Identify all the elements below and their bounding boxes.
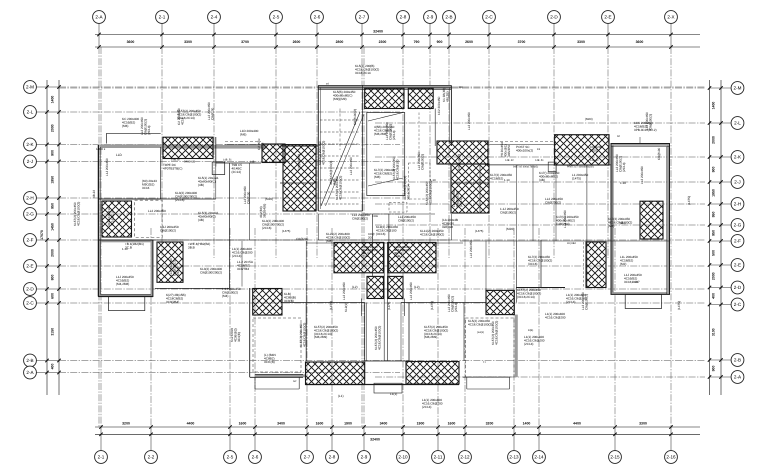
grid bubble right 2-J (731, 176, 744, 189)
wall room right edge (463, 303, 465, 362)
svg-text:3700: 3700 (518, 40, 526, 44)
svg-text:C8@100(2): C8@100(2) (457, 154, 461, 170)
svg-text:(M6): (M6) (240, 132, 246, 136)
label room C upper (645, 112, 652, 130)
svg-text:4C18(B2): 4C18(B2) (490, 176, 503, 180)
svg-text:(M9): (M9) (458, 86, 463, 89)
grid bubble left 2-C (24, 297, 37, 310)
grid bubble left 2-L (24, 106, 37, 119)
grid bubble top 2-A (93, 11, 106, 24)
wall left of H10 (586, 241, 588, 288)
svg-text:3x8(3x8: 3x8(3x8 (442, 225, 453, 229)
svg-text:(C4B: (C4B (394, 254, 401, 258)
grid bubble top 2-8 (397, 11, 410, 24)
grid bubble top 2-6 (311, 11, 324, 24)
wall core top edge (318, 84, 451, 86)
wall tab below H1 (212, 162, 225, 175)
wall below H14a (361, 299, 363, 317)
wall core left (317, 86, 319, 212)
svg-text:3400: 3400 (277, 421, 285, 425)
grid line 438 vertical (bottom) (437, 228, 439, 427)
label rotated room C2 (640, 166, 644, 184)
label KL left (175, 191, 197, 202)
svg-text:2600: 2600 (293, 40, 301, 44)
label bottom left room (264, 353, 276, 364)
svg-text:LL2 200x450: LL2 200x450 (409, 282, 413, 300)
label left edge small (96, 147, 106, 151)
grid bubble left 2-B (24, 354, 37, 367)
svg-text:LLD: LLD (116, 153, 123, 157)
grid line 88 horizontal (right) (59, 87, 705, 89)
svg-text:2000: 2000 (51, 249, 55, 257)
grid bubble top 2-5 (270, 11, 283, 24)
wall step R (466, 377, 468, 389)
dashed room outline bottom right (466, 318, 515, 377)
grid bubble right 2-F (731, 235, 744, 248)
wall vertical (408, 303, 410, 362)
wall corridor bottom left (183, 239, 306, 241)
grid bubble top 2-D (548, 11, 561, 24)
label right of H11L (284, 292, 296, 303)
svg-text:(M4,2M8): (M4,2M8) (116, 282, 129, 286)
grid line 214 vertical (top) (213, 47, 215, 258)
svg-text:2-J: 2-J (27, 159, 33, 164)
label rotated room C (615, 154, 626, 172)
svg-text:2-F: 2-F (734, 239, 741, 244)
svg-text:14B .51: 14B .51 (535, 159, 544, 162)
svg-text:790: 790 (414, 40, 420, 44)
label rotated center (374, 326, 381, 350)
label left mid 3 (148, 209, 166, 213)
grid bubble top 2-7 (356, 11, 369, 24)
grid bubble right 2-A (731, 371, 744, 384)
svg-text:C8@100(2): C8@100(2) (352, 216, 368, 220)
svg-text:(1475): (1475) (572, 176, 581, 180)
wall outline right (485, 144, 556, 146)
label core col 5 (425, 181, 432, 205)
svg-text:4C18: 4C18 (260, 142, 264, 150)
label core inner 3 (392, 156, 399, 180)
wall notch below H8 (548, 162, 556, 172)
svg-text:3C8(2B4): 3C8(2B4) (166, 300, 179, 304)
label core inner 4 (417, 152, 424, 170)
wall vertical 541 (540, 240, 542, 288)
label center left small (329, 301, 333, 310)
grid bubble left 2-E (24, 260, 37, 273)
wall room B bottom inner (101, 294, 151, 296)
svg-text:2-1: 2-1 (159, 15, 166, 20)
wall core bottom (363, 213, 435, 215)
svg-text:2-C: 2-C (734, 302, 742, 307)
wall core inner vertical (362, 86, 364, 212)
duct shaft tall rect (367, 113, 405, 196)
wall interior (532, 165, 534, 241)
grid line 230 vertical (bottom) (229, 228, 231, 427)
svg-text:(M8): (M8) (374, 175, 380, 179)
label near H8 (590, 145, 603, 152)
wall thin above hatches (306, 242, 463, 244)
svg-text:2-K: 2-K (734, 155, 742, 160)
svg-text:3400 1C: 3400 1C (184, 160, 195, 164)
svg-text:3300: 3300 (639, 421, 647, 425)
grid bubble bottom 2-12 (459, 451, 472, 464)
svg-text:3150: 3150 (51, 328, 55, 336)
svg-text:17070: 17070 (40, 230, 44, 240)
label core col 1 (335, 176, 342, 200)
svg-text:2-C: 2-C (26, 301, 34, 306)
svg-text:2-2: 2-2 (148, 455, 155, 460)
wall corridor bottom center (318, 239, 451, 241)
svg-text:2-9: 2-9 (427, 15, 434, 20)
grid bubble top 2-4 (208, 11, 221, 24)
grid bubble left 2-J (24, 155, 37, 168)
svg-text:(M4): (M4) (222, 294, 228, 298)
label core col 4 (403, 176, 410, 200)
svg-text:900: 900 (712, 167, 716, 173)
label right bottom (566, 293, 587, 304)
svg-text:1400: 1400 (712, 102, 716, 110)
wall tab below room B (109, 297, 145, 311)
svg-text:400x100x(2): 400x100x(2) (516, 148, 533, 152)
svg-text:2-5: 2-5 (273, 15, 280, 20)
label left bottom (222, 287, 241, 298)
svg-text:3200: 3200 (486, 421, 494, 425)
wall center corridor R (400, 303, 402, 362)
wall vertical upper R (485, 241, 487, 288)
grid bubble bottom 2-10 (397, 451, 410, 464)
wall corridor top left (216, 162, 261, 164)
wall step (298, 377, 300, 389)
label small 1 (296, 237, 309, 241)
svg-text:4C18;C8@100(2): 4C18;C8@100(2) (76, 202, 80, 226)
grid line 289 horizontal (left) (59, 288, 705, 290)
grid bubble top 2-X (665, 11, 678, 24)
svg-text:3200: 3200 (122, 421, 130, 425)
grid line 87 horizontal (left) (59, 86, 705, 88)
svg-text:C8@100(2): C8@100(2) (160, 228, 176, 232)
wall corridor bottom right (460, 240, 611, 242)
svg-text:3400: 3400 (380, 421, 388, 425)
svg-text:14B .92: 14B .92 (505, 159, 514, 162)
svg-text:1600: 1600 (239, 421, 247, 425)
shear wall hatch H2 (102, 201, 132, 237)
shear wall hatch H15 (306, 362, 365, 385)
grid bubble right 2-G (731, 219, 744, 232)
svg-text:1450: 1450 (51, 223, 55, 231)
label beams left wing (177, 109, 201, 120)
label rotated right (687, 196, 691, 205)
svg-text:PRET2LT 400x600x(92): PRET2LT 400x600x(92) (567, 166, 594, 169)
grid line 608 vertical (top) (607, 47, 609, 258)
grid line 514 vertical (bottom) (513, 228, 515, 427)
label right lower (677, 301, 681, 310)
label right mid small (469, 240, 473, 258)
svg-text:(2C14): (2C14) (454, 303, 458, 312)
svg-text:2-L: 2-L (734, 121, 741, 126)
svg-text:C8@100(2): C8@100(2) (420, 154, 424, 170)
grid line 123 horizontal (right) (375, 122, 705, 124)
svg-text:3700: 3700 (241, 40, 249, 44)
label rot below H12 (344, 303, 348, 312)
svg-text:(1475): (1475) (475, 229, 483, 233)
grid line 554 vertical (top) (553, 47, 555, 258)
label mid room (237, 260, 254, 271)
wall center corridor L (366, 303, 368, 362)
svg-text:(2C14): (2C14) (176, 267, 180, 276)
svg-text:(M2): (M2) (620, 262, 626, 266)
grid bubble right 2-C (731, 298, 744, 311)
svg-text:1950: 1950 (51, 176, 55, 184)
grid bubble right 2-D (731, 281, 744, 294)
wall room B (99, 240, 153, 297)
wall right of H7 (479, 165, 481, 213)
shear wall hatch H5 (283, 145, 316, 211)
grid line 403 vertical (top) (402, 47, 404, 427)
svg-text:3100: 3100 (712, 328, 716, 336)
grid line 332 vertical (bottom) (331, 228, 333, 427)
svg-text:3300: 3300 (184, 40, 192, 44)
svg-text:2300: 2300 (379, 40, 387, 44)
wall (486, 314, 515, 316)
svg-text:(2C14): (2C14) (147, 126, 151, 135)
svg-text:4B.22: 4B.22 (92, 190, 96, 198)
grid line 303 horizontal (left) (59, 302, 705, 304)
grid line 204 horizontal (right) (375, 203, 705, 205)
svg-text:2-G: 2-G (734, 223, 742, 228)
svg-text:C8@100(2): C8@100(2) (584, 294, 588, 310)
label bottom right col (468, 319, 492, 326)
svg-text:C4B(2B4): C4B(2B4) (556, 222, 570, 226)
wall core top inner (318, 87, 451, 89)
svg-text:3B.B: 3B.B (188, 245, 195, 249)
grid bubble right 2-B (731, 354, 744, 367)
svg-text:3C8 (B): 3C8 (B) (264, 360, 275, 364)
svg-text:1.10: 1.10 (504, 178, 510, 182)
svg-text:1400: 1400 (51, 96, 55, 104)
svg-text:9407.92 400x1780(92): 9407.92 400x1780(92) (513, 166, 538, 169)
wall interior vertical right (515, 241, 517, 303)
label above core (355, 64, 379, 75)
svg-text:(1475): (1475) (387, 302, 391, 310)
svg-text:L1J 200x450: L1J 200x450 (105, 158, 109, 176)
svg-text:(M9)|(M9): (M9)|(M9) (333, 97, 347, 101)
label room B inner (116, 275, 134, 286)
shear wall hatch H12 (334, 242, 384, 272)
svg-text:2-E: 2-E (604, 15, 611, 20)
wall core right inner (448, 88, 450, 145)
label core inner 2 (349, 157, 353, 175)
svg-text:2-A: 2-A (734, 375, 742, 380)
label right of H3 (188, 242, 210, 249)
svg-text:4P0TB3TB(C): 4P0TB3TB(C) (163, 166, 182, 170)
grid bubble right 2-M (731, 82, 744, 95)
svg-text:2-E: 2-E (26, 264, 33, 269)
grid line 362 vertical (top) (361, 47, 363, 427)
grid bubble right 2-L (731, 117, 744, 130)
svg-text:(3C16): (3C16) (376, 232, 385, 236)
label core col 6 (353, 109, 357, 125)
wall interior right mid (555, 165, 557, 241)
wall tab bottom center (374, 383, 402, 393)
svg-text:3C16: 3C16 (142, 186, 150, 190)
wall outline (225, 144, 261, 146)
stair flight diagonals (321, 112, 360, 206)
wall dashed beside H10 (582, 242, 584, 287)
svg-text:200: 200 (368, 235, 373, 239)
wall room B bottom (99, 296, 153, 298)
grid line 372.5 horizontal (left) (59, 372, 400, 374)
wall core left inner (319, 88, 321, 210)
wall (106, 133, 108, 143)
wall room C inner right (666, 147, 668, 295)
grid line 101 vertical (bottom) (100, 47, 102, 427)
svg-text:240B: 240B (372, 215, 378, 218)
grid bubble bottom 2-15 (609, 451, 622, 464)
shear wall hatch H7a (437, 141, 488, 164)
label top left 2 (122, 117, 139, 128)
shear wall hatch H13 (388, 242, 436, 272)
label below core 4 (442, 218, 458, 229)
label small m20 r (506, 227, 514, 231)
label small 2 (437, 96, 441, 115)
shaft slant top (368, 113, 403, 122)
svg-text:2-L: 2-L (27, 110, 34, 115)
svg-text:2-6: 2-6 (314, 15, 321, 20)
svg-text:(L1): (L1) (338, 394, 344, 398)
svg-text:C8@100(2): C8@100(2) (297, 154, 301, 170)
shear wall hatch H16 (406, 362, 459, 385)
wall vertical (305, 303, 307, 362)
svg-text:(2C14): (2C14) (392, 131, 396, 140)
grid line 161.5 horizontal (left) (59, 161, 400, 163)
wall gray vertical right column (515, 315, 518, 378)
wall center slot R (386, 242, 388, 361)
label right band (500, 207, 519, 214)
label below core 2 (376, 225, 398, 236)
svg-text:C8@100(2): C8@100(2) (545, 200, 561, 204)
wall interior right mid 3 (515, 165, 517, 241)
svg-text:2-M: 2-M (734, 86, 742, 91)
wall room A bottom (99, 198, 161, 200)
svg-text:C8@100: C8@100 (210, 107, 214, 120)
wall bottom left (250, 376, 303, 378)
svg-text:(M20): (M20) (506, 227, 514, 231)
svg-text:14B: 14B (250, 161, 255, 164)
label corridor R (516, 145, 533, 152)
svg-text:C8@100: C8@100 (657, 147, 661, 160)
wall interior right mid 2 (586, 165, 588, 241)
label room B top (125, 242, 144, 249)
svg-text:(M20): (M20) (590, 148, 598, 152)
svg-text:3C16;2C14: 3C16;2C14 (355, 71, 371, 75)
wall vertical left wing (215, 167, 217, 200)
label right col v (581, 292, 588, 310)
svg-text:2-14: 2-14 (534, 455, 544, 460)
svg-text:2-X: 2-X (667, 15, 674, 20)
label rotated (342, 282, 346, 300)
svg-text:(3C16): (3C16) (528, 262, 537, 266)
label rot left corridor (259, 204, 266, 218)
label rotated (169, 258, 180, 276)
svg-text:3C16;2C14: 3C16;2C14 (110, 210, 114, 226)
svg-text:4C18;C8@100(2): 4C18;C8@100(2) (468, 322, 492, 326)
wall shaft right (388, 214, 390, 276)
grid bubble bottom 2-16 (665, 451, 678, 464)
wall core inner right (434, 109, 436, 147)
svg-text:(M20): (M20) (265, 197, 273, 201)
svg-text:2-5: 2-5 (227, 455, 234, 460)
svg-text:1950: 1950 (712, 189, 716, 197)
svg-text:4C18;C8@100(2): 4C18;C8@100(2) (302, 323, 306, 347)
svg-text:2-F: 2-F (27, 238, 34, 243)
grid line 615 vertical (bottom) (614, 228, 616, 427)
wall dashed (225, 141, 261, 143)
hatch divider H5 (280, 182, 316, 184)
label small c (352, 285, 358, 289)
grid line 276 vertical (top) (275, 47, 277, 258)
svg-text:LL2 200x450: LL2 200x450 (349, 157, 353, 175)
svg-text:C8@200: C8@200 (296, 237, 309, 241)
label right of core top (442, 88, 449, 102)
svg-text:2-9: 2-9 (361, 455, 368, 460)
label left room 2 (200, 267, 222, 274)
svg-text:2-16: 2-16 (666, 455, 676, 460)
svg-text:(2C16): (2C16) (175, 198, 184, 202)
svg-text:3PB.3C22(B2.2): 3PB.3C22(B2.2) (634, 128, 657, 132)
svg-text:(1475): (1475) (687, 196, 691, 205)
svg-text:T.I: T.I (483, 361, 486, 364)
label near H4 (240, 129, 259, 136)
svg-text:2-G: 2-G (26, 212, 34, 217)
svg-text:(M8,2M9): (M8,2M9) (424, 335, 437, 339)
svg-text:(3C16;2C14): (3C16;2C14) (517, 295, 535, 299)
grid line 255 vertical (bottom) (254, 228, 256, 427)
label over H13 (394, 245, 410, 258)
wall room A right (160, 147, 162, 199)
svg-text:(2C14): (2C14) (232, 254, 241, 258)
grid bubble left 2-A (24, 366, 37, 379)
wall below H14b (404, 299, 406, 317)
svg-text:(2C14): (2C14) (566, 300, 575, 304)
svg-text:4C18;C8@100(2): 4C18;C8@100(2) (420, 232, 444, 236)
grid line 360.5 horizontal (left) (59, 360, 705, 362)
grid line 671 vertical (top) (670, 47, 672, 427)
wall room C inner left (612, 146, 614, 293)
label rotated (409, 282, 413, 300)
svg-text:3600: 3600 (127, 40, 135, 44)
label H5 top (297, 154, 301, 170)
shear wall hatch H3 (157, 242, 183, 282)
grid bubble bottom 2-9 (358, 451, 371, 464)
shear wall hatch H7b (451, 164, 489, 213)
wall room C inner top (611, 146, 670, 148)
label below core 3 (420, 229, 444, 236)
grid line 465 vertical (bottom) (464, 228, 466, 427)
wall step (254, 377, 256, 389)
label over H2 (107, 205, 114, 226)
svg-text:32400: 32400 (373, 30, 383, 34)
label left h2 side (160, 225, 179, 232)
svg-text:3B.2B4(B): 3B.2B4(B) (262, 204, 266, 218)
svg-text:3C16;2C97: 3C16;2C97 (624, 280, 640, 284)
svg-text:1400: 1400 (523, 421, 531, 425)
svg-text:1.10: 1.10 (620, 181, 626, 185)
hatch divider H7 (451, 182, 489, 184)
svg-text:K2: K2 (537, 148, 541, 151)
wall room C outer (612, 145, 668, 294)
label rotated (299, 323, 306, 347)
svg-text:(1475): (1475) (329, 301, 333, 310)
